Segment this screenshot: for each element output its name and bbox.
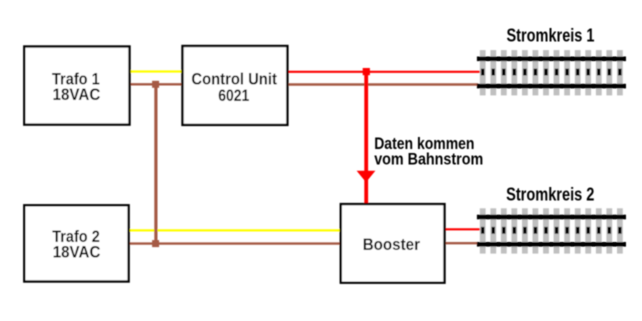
wire red Control Unit to Stromkreis 1 <box>287 71 481 73</box>
wire red vertical data line to Booster <box>364 72 368 204</box>
svg-text:Booster: Booster <box>363 235 421 254</box>
svg-text:vom Bahnstrom: vom Bahnstrom <box>374 150 483 169</box>
wire red Booster to Stromkreis 2 <box>445 228 482 230</box>
junction red <box>363 68 370 75</box>
wire yellow Trafo1 to Control Unit <box>130 70 184 72</box>
svg-text:Stromkreis 1: Stromkreis 1 <box>507 26 595 46</box>
track Stromkreis 1 <box>477 50 626 95</box>
wire brown Trafo2 to Booster <box>129 242 342 244</box>
svg-text:18VAC: 18VAC <box>53 242 101 261</box>
wire brown Trafo1 to Control Unit <box>130 83 184 85</box>
wire yellow Trafo2 to Booster <box>129 229 342 231</box>
wire brown vertical Trafo1 bus down to Trafo2 bus <box>154 84 157 243</box>
track Stromkreis 2 <box>477 208 626 253</box>
box Trafo 1 <box>24 47 129 125</box>
svg-text:18VAC: 18VAC <box>53 85 101 104</box>
box Control Unit <box>183 46 288 125</box>
svg-text:Stromkreis 2: Stromkreis 2 <box>506 185 594 205</box>
wire brown Control Unit to Stromkreis 1 rail <box>287 83 478 85</box>
svg-text:6021: 6021 <box>218 86 249 105</box>
box Trafo 2 <box>24 205 128 281</box>
junction brown upper <box>152 81 159 88</box>
box Booster <box>341 204 445 283</box>
arrowhead red <box>357 171 376 183</box>
wire brown Booster to Stromkreis 2 rail <box>445 242 479 244</box>
junction brown lower <box>152 240 159 247</box>
